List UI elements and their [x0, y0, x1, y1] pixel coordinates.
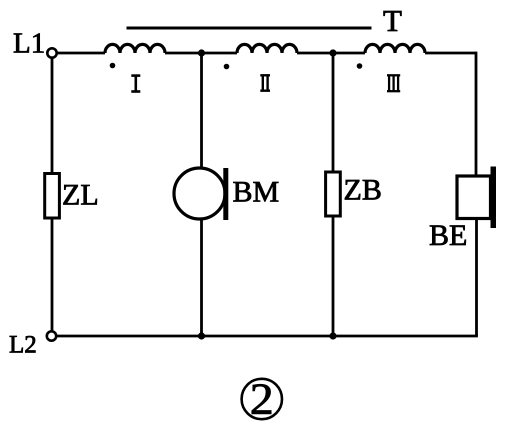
wire top: coil II to coil III: [297, 52, 365, 55]
junction node on bottom wire (BM branch): [198, 332, 205, 339]
wire ZB branch lower: [332, 216, 335, 336]
impedance ZB: [326, 172, 341, 216]
svg-text:ZB: ZB: [344, 174, 382, 207]
label II: [260, 75, 270, 90]
svg-text:T: T: [383, 3, 402, 38]
polarity dot winding III: [357, 63, 363, 69]
impedance ZL: [45, 174, 60, 219]
wire top: coil I to coil II: [165, 52, 237, 55]
junction node on top wire (BM branch): [198, 49, 205, 56]
wire left lower: ZL down to L2: [51, 218, 54, 331]
wire top: coil III to right corner: [425, 52, 476, 55]
microphone BM bar: [223, 168, 228, 220]
wire BM branch upper: [200, 53, 203, 169]
wire ZB branch upper: [332, 53, 335, 173]
label I: [131, 76, 140, 92]
svg-text:ZL: ZL: [62, 179, 99, 212]
microphone BM circle: [174, 168, 225, 219]
earphone BE box: [457, 176, 491, 219]
junction node on top wire (ZB branch): [329, 49, 336, 56]
svg-text:L1: L1: [13, 28, 45, 60]
wire bottom: L2 to right corner: [57, 335, 478, 338]
inductor winding II: [237, 44, 297, 53]
transformer core bar T: [127, 27, 372, 30]
earphone BE bar: [491, 167, 497, 229]
svg-text:2: 2: [250, 374, 274, 423]
svg-text:BE: BE: [429, 219, 467, 252]
wire right lower: BE down to bottom corner: [475, 219, 478, 337]
terminal L1: [47, 48, 56, 57]
terminal L2: [47, 331, 56, 340]
svg-text:L2: L2: [9, 332, 37, 359]
wire right upper: corner down to BE: [475, 52, 478, 177]
label III: [387, 75, 400, 91]
inductor winding I: [105, 44, 165, 53]
wire top: L1 to coil I: [57, 52, 105, 55]
junction node on bottom wire (ZB branch): [329, 332, 336, 339]
inductor winding III: [365, 44, 425, 53]
polarity dot winding I: [110, 63, 116, 69]
wire BM branch lower: [200, 219, 203, 336]
figure number circle 2: [242, 379, 282, 419]
polarity dot winding II: [224, 64, 230, 70]
svg-text:BM: BM: [233, 176, 280, 209]
wire left upper: L1 down to ZL: [51, 58, 54, 174]
